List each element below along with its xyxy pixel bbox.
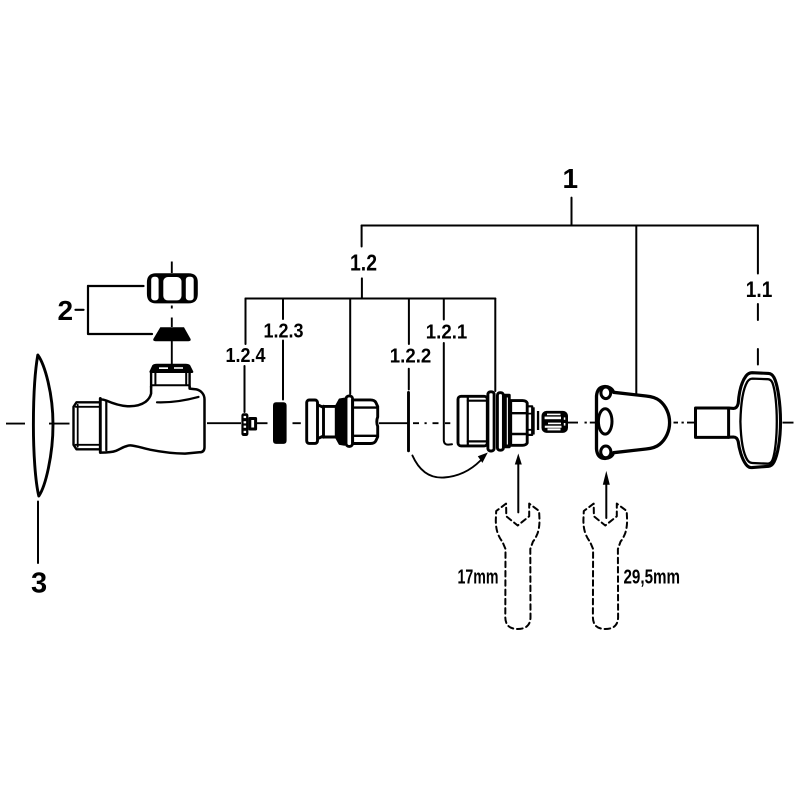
label 3 bbox=[31, 568, 47, 600]
valve inlet (top, threaded) bbox=[151, 365, 193, 387]
dashed leader 1.1 to key bbox=[757, 304, 759, 365]
wall flange 3 bbox=[33, 355, 53, 496]
bracket for 1.2 bbox=[246, 298, 496, 300]
o-ring 1.2.2 (edge view) bbox=[407, 393, 410, 451]
drop to 1.2.1 bbox=[443, 299, 445, 320]
drop to 1.1 bbox=[757, 226, 759, 274]
drop to bushing bbox=[349, 299, 351, 395]
leader 1.2.2 bbox=[408, 369, 410, 390]
label 1.2.3 bbox=[264, 320, 304, 343]
svg-text:2: 2 bbox=[58, 295, 74, 326]
label 1.2.1 bbox=[426, 321, 468, 344]
threaded nipple of valve body bbox=[74, 402, 100, 449]
arrow up to cartridge (17mm wrench) bbox=[517, 463, 519, 512]
screw 1.2.4 bbox=[241, 413, 255, 436]
key 1.1 bow bbox=[729, 373, 781, 468]
label 17mm bbox=[458, 567, 499, 589]
label 1 bbox=[563, 163, 579, 194]
bracket for 2 bbox=[76, 309, 84, 311]
drop to cartridge bbox=[494, 299, 496, 392]
drop to 1.2.3 bbox=[282, 299, 284, 320]
key 1.1 stem bbox=[696, 408, 729, 437]
label 1.2.4 bbox=[226, 344, 267, 367]
drop to escutcheon bbox=[635, 226, 637, 396]
label 1.2 bbox=[350, 250, 377, 276]
svg-text:1.2.2: 1.2.2 bbox=[390, 345, 432, 368]
label 2 bbox=[58, 295, 74, 326]
svg-text:17mm: 17mm bbox=[458, 567, 499, 589]
svg-text:3: 3 bbox=[31, 568, 47, 600]
arrow up to escutcheon (29.5mm wrench) bbox=[605, 484, 607, 518]
svg-text:1.2.3: 1.2.3 bbox=[264, 320, 304, 343]
drop to 1.2.4 bbox=[245, 299, 247, 345]
label 29,5mm bbox=[624, 567, 681, 589]
stem under 1.2 bbox=[361, 278, 363, 298]
bracket for 1 bbox=[362, 225, 758, 227]
horizontal centerline bbox=[6, 423, 794, 424]
leader 3 to flange bbox=[37, 502, 39, 564]
cartridge 1.2.1 bbox=[458, 392, 539, 451]
hex nut 2 bbox=[147, 273, 198, 303]
valve body inner curves bbox=[157, 397, 199, 402]
leader 1.2.4 to screw bbox=[244, 366, 246, 412]
17mm wrench (dashed) bbox=[496, 504, 540, 629]
svg-text:1.2.4: 1.2.4 bbox=[226, 344, 267, 367]
svg-text:29,5mm: 29,5mm bbox=[624, 567, 681, 589]
drop to 1.2.2 bbox=[408, 299, 410, 345]
cone seal (black) bbox=[153, 327, 191, 341]
vertical centerline through nut and cone bbox=[171, 262, 173, 366]
leader 1.2.1 with hook bbox=[444, 343, 452, 445]
svg-text:1.2: 1.2 bbox=[350, 250, 377, 276]
curved arrow from 1.2.2 to cartridge groove bbox=[412, 456, 480, 478]
bushing assembly (headpart sleeve) bbox=[307, 396, 378, 447]
valve body bbox=[100, 387, 151, 407]
svg-text:1.1: 1.1 bbox=[746, 277, 773, 302]
label 1.2.2 bbox=[390, 345, 432, 368]
o-ring 1.2.3 (black) bbox=[273, 402, 287, 444]
label 1.1 bbox=[746, 277, 773, 302]
splined stem of cartridge bbox=[542, 411, 569, 433]
svg-text:1: 1 bbox=[563, 163, 579, 194]
leader stem under 1 bbox=[571, 198, 573, 226]
collar junction of valve body bbox=[100, 398, 106, 452]
leader 1.2.3 to ring bbox=[282, 341, 284, 400]
drop line to 1.2 bbox=[361, 226, 363, 247]
escutcheon / handle adapter bbox=[597, 387, 670, 459]
svg-text:1.2.1: 1.2.1 bbox=[426, 321, 468, 344]
29.5mm wrench (dashed) bbox=[583, 504, 627, 629]
